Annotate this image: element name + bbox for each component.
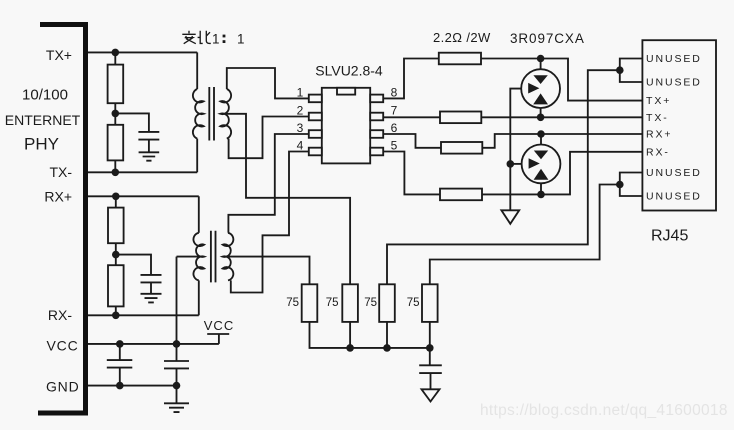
wire TVS D2 gate xyxy=(510,163,521,165)
capacitor termination xyxy=(419,348,442,389)
wire TX+ from PHY to transformer T1 xyxy=(88,51,197,53)
resistor 75 B xyxy=(342,284,358,322)
node GND cap1 xyxy=(116,382,124,390)
node rail D xyxy=(426,344,434,352)
transformer T1 primary bottom lead xyxy=(196,139,198,173)
resistor R2 2.2ohm TX- xyxy=(440,112,481,124)
resistor 75 C xyxy=(379,284,395,322)
wire RX divider mid to capacitor xyxy=(116,255,151,275)
wire resistor leads RX divider xyxy=(115,196,117,315)
ground triangle TVS xyxy=(501,210,519,224)
svg-text:75: 75 xyxy=(326,297,339,309)
svg-text:6: 6 xyxy=(391,121,398,135)
node RX divider midpoint xyxy=(112,251,120,259)
U1 pin 3 xyxy=(309,130,322,138)
capacitor TX bypass xyxy=(138,132,159,152)
wire TX- from PHY to transformer T1 xyxy=(88,171,197,173)
node RX- TVS bottom xyxy=(537,191,545,199)
U1 pin 6 xyxy=(370,130,383,138)
svg-text:3R097CXA: 3R097CXA xyxy=(510,31,585,46)
svg-text:UNUSED: UNUSED xyxy=(646,167,702,179)
transformer T1 primary winding xyxy=(193,89,204,139)
resistor TX divider upper xyxy=(108,65,124,104)
PHY label 10/100 ENTERNET PHY xyxy=(5,87,81,154)
RJ45 pin labels xyxy=(646,53,702,203)
node rail C xyxy=(383,344,391,352)
svg-text:UNUSED: UNUSED xyxy=(646,53,702,65)
U1 pin 8 xyxy=(370,95,383,103)
svg-text:TX+: TX+ xyxy=(46,47,72,63)
transformer T1 core xyxy=(209,87,214,141)
node VCC cap1 xyxy=(116,340,124,348)
wire 75 ohm common rail xyxy=(310,322,430,348)
wire RX+ from PHY to transformer T2 xyxy=(88,195,199,197)
node TX+ TVS top xyxy=(537,55,545,63)
wire GND to earth xyxy=(176,386,178,404)
PHY block border xyxy=(38,25,86,414)
ground earth RX bypass xyxy=(141,294,162,303)
node TX+ divider tap xyxy=(112,49,120,57)
resistor R4 2.2ohm RX- xyxy=(440,189,482,201)
VCC power symbol xyxy=(207,334,229,344)
svg-text:RX-: RX- xyxy=(646,146,670,158)
svg-text:VCC: VCC xyxy=(204,318,234,333)
transformer T2 primary winding xyxy=(193,233,204,281)
wire U1 pin7 to TX- series resistor xyxy=(383,116,440,118)
wire U1 pin8 up to TX+ series resistor xyxy=(383,59,438,99)
resistor TX divider lower xyxy=(108,125,124,161)
transformer T2 secondary winding xyxy=(223,233,234,281)
svg-text:PHY: PHY xyxy=(24,135,59,154)
wire resistor leads TX divider xyxy=(114,52,116,172)
wire RX- to RJ45 xyxy=(482,152,642,195)
node rail B xyxy=(346,344,354,352)
wire VCC rail xyxy=(88,343,219,345)
wire TX+ to RJ45 xyxy=(481,59,642,101)
wire T2 primary center tap to VCC rail xyxy=(177,256,203,258)
svg-text:4: 4 xyxy=(297,139,304,153)
U1 pin 1 xyxy=(309,95,322,103)
wire GND rail xyxy=(88,385,177,387)
wire RX+ jog up to RJ45 xyxy=(482,134,642,148)
node TX- divider join xyxy=(112,169,120,177)
transformer T2 primary bottom lead to RX- xyxy=(198,280,200,315)
node VCC cap2 xyxy=(173,340,181,348)
svg-text:75: 75 xyxy=(286,297,299,309)
svg-text:UNUSED: UNUSED xyxy=(646,77,702,89)
wire T1 secondary bottom to U1 pin2 xyxy=(229,117,309,159)
resistor 75 D xyxy=(422,284,438,322)
svg-text:5: 5 xyxy=(391,139,398,153)
svg-text:RJ45: RJ45 xyxy=(651,228,688,245)
node TX- TVS bottom xyxy=(537,114,545,122)
wire TX- to RJ45 xyxy=(481,116,642,118)
wire TVS common down xyxy=(509,164,511,210)
svg-text:2.2Ω /2W: 2.2Ω /2W xyxy=(433,30,491,45)
wire RX- from PHY to transformer T2 xyxy=(88,314,199,316)
transformer T2 primary top lead xyxy=(198,196,200,233)
ground earth TX bypass xyxy=(139,152,160,160)
ground triangle termination xyxy=(422,389,440,401)
svg-text:75: 75 xyxy=(407,297,420,309)
svg-text:RX+: RX+ xyxy=(646,129,672,141)
resistor RX divider lower xyxy=(108,265,124,306)
node GND cap2 xyxy=(173,382,181,390)
svg-text:TX-: TX- xyxy=(49,164,72,180)
resistor RX divider upper xyxy=(108,208,124,244)
wire T2 secondary bottom to U1 pin4 xyxy=(231,152,309,293)
TVS D2 3R097CXA lower circle xyxy=(522,134,561,194)
U1 pin 4 xyxy=(309,148,322,156)
svg-text:1: 1 xyxy=(237,31,245,46)
node RX+ TVS top xyxy=(537,130,545,138)
transformer T2 core xyxy=(211,231,216,283)
wire T2 secondary top to U1 pin3 xyxy=(228,134,308,233)
svg-text:7: 7 xyxy=(391,104,398,118)
svg-text:https://blog.csdn.net/qq_41600: https://blog.csdn.net/qq_41600018 xyxy=(480,402,728,419)
svg-text:GND: GND xyxy=(46,379,80,395)
wire U1 pin5 jog down to RX- series resistor xyxy=(383,152,440,195)
wire T1 secondary top to U1 pin1 xyxy=(227,68,309,98)
ground earth main xyxy=(164,403,189,412)
svg-text:1: 1 xyxy=(212,31,220,46)
wire TVS D1 gate to ground xyxy=(510,89,521,164)
label ratio 1:1 (Chinese bianbi) xyxy=(182,31,211,44)
node bottom unused join xyxy=(616,181,624,189)
wire TX divider mid to capacitor xyxy=(115,113,149,131)
node TX divider midpoint xyxy=(112,110,120,118)
resistor R1 2.2ohm TX+ xyxy=(439,53,481,65)
wire U1 pin6 jog down to RX+ series resistor xyxy=(383,134,441,148)
svg-text:2: 2 xyxy=(297,104,304,118)
svg-text:10/100: 10/100 xyxy=(22,87,68,104)
node RX- divider join xyxy=(112,312,120,320)
svg-text:RX-: RX- xyxy=(48,307,72,323)
RJ45 connector box xyxy=(642,40,716,210)
op-amp U1 SLVU2.8-4 body xyxy=(322,88,370,164)
capacitor RX bypass xyxy=(141,275,162,294)
wire bottom unused to resistor 75 D xyxy=(430,185,620,285)
svg-text:VCC: VCC xyxy=(47,338,79,354)
wire RJ45 bottom unused pair bracket xyxy=(620,173,643,197)
transformer T1 primary top lead xyxy=(196,52,198,89)
transformer T1 secondary winding xyxy=(220,89,231,139)
wire RJ45 top unused pair bracket xyxy=(620,59,643,83)
capacitor C2 VCC-GND xyxy=(164,344,189,386)
node top unused join xyxy=(616,66,624,74)
svg-text:UNUSED: UNUSED xyxy=(646,191,702,203)
svg-text:1: 1 xyxy=(297,85,304,99)
U1 pin 5 xyxy=(370,148,383,156)
svg-text:SLVU2.8-4: SLVU2.8-4 xyxy=(315,63,383,79)
wire T1 secondary center tap to resistor 75 B xyxy=(222,114,350,284)
svg-text:ENTERNET: ENTERNET xyxy=(5,112,81,128)
svg-text:RX+: RX+ xyxy=(44,189,72,205)
U1 pin 7 xyxy=(370,113,383,121)
svg-text:3: 3 xyxy=(297,121,304,135)
svg-text:TX-: TX- xyxy=(646,112,669,124)
wire T2 secondary center tap to resistor 75 A xyxy=(226,257,310,285)
wire top unused to resistor 75 C xyxy=(387,70,620,284)
U1 notch mark xyxy=(337,88,355,95)
svg-text:75: 75 xyxy=(364,297,377,309)
node RX+ divider tap xyxy=(112,193,120,201)
capacitor C1 VCC-GND xyxy=(107,344,133,386)
U1 pin 2 xyxy=(309,113,322,121)
resistor R3 2.2ohm RX+ xyxy=(441,142,482,154)
TVS D1 3R097CXA upper circle xyxy=(521,59,560,118)
svg-text:TX+: TX+ xyxy=(646,95,671,107)
resistor 75 A xyxy=(302,284,318,322)
svg-text:8: 8 xyxy=(391,85,398,99)
node TVS common ground xyxy=(507,160,515,168)
